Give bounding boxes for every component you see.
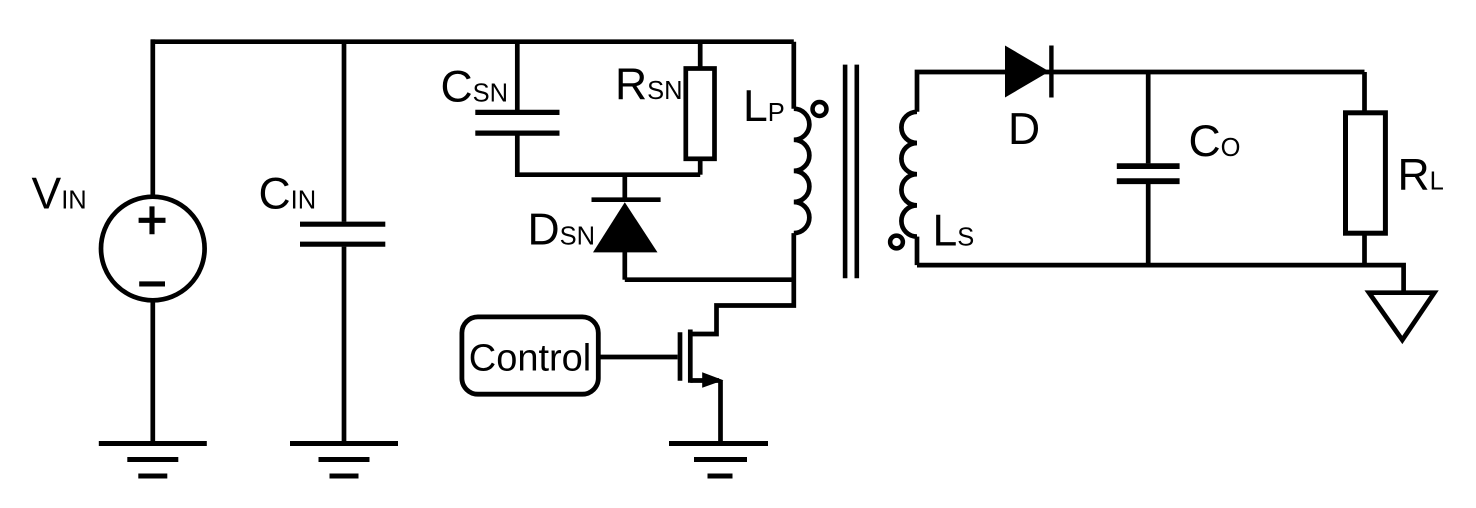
wire top bus from VIN to LP (151, 39, 794, 44)
wire CO top lead (1146, 72, 1151, 163)
inductor LS coil (901, 112, 917, 237)
ground G1 under VIN (99, 444, 207, 477)
resistor RSN body (686, 69, 715, 159)
svg-text:Control: Control (469, 337, 592, 379)
control block box (462, 317, 598, 394)
MOSFET Q1 gate bar (678, 332, 683, 380)
capacitor CO plates (1117, 166, 1180, 181)
wire DSN to LP bottom (625, 277, 794, 282)
VIN minus sign (139, 281, 165, 286)
diode D cathode bar (1049, 46, 1053, 98)
wire RL bottom lead (1362, 233, 1367, 265)
transformer phasing dot secondary (890, 236, 903, 249)
svg-text:DSN: DSN (528, 206, 596, 255)
svg-text:RL: RL (1398, 150, 1444, 199)
diode DSN cathode bar (592, 197, 661, 202)
diode DSN triangle (593, 202, 658, 252)
ground G3 under MOSFET (669, 444, 768, 477)
MOSFET Q1 source arrow (702, 372, 723, 388)
wire CSN bottom to RSN bottom (517, 135, 700, 174)
capacitor CIN plates (300, 224, 385, 244)
wire CO bottom lead (1146, 184, 1151, 265)
wire LS top and secondary top bus (917, 72, 1365, 112)
svg-text:LP: LP (743, 82, 785, 131)
wire MOSFET source to ground (718, 381, 723, 444)
wire RL top lead (1362, 72, 1367, 113)
resistor RL body (1346, 113, 1386, 233)
wire CIN top lead (342, 42, 347, 222)
wire VIN bottom lead (150, 301, 155, 443)
svg-text:LS: LS (933, 207, 975, 256)
wire secondary bottom bus (917, 265, 1404, 293)
wire DSN cathode stub (622, 175, 627, 200)
wire DSN anode stub (622, 252, 627, 280)
VIN plus sign (139, 206, 166, 234)
ground G2 under CIN (290, 444, 398, 477)
svg-text:CSN: CSN (441, 62, 509, 111)
svg-text:D: D (1008, 105, 1040, 154)
wire gate from Control to MOSFET (598, 355, 677, 360)
wire LS bottom lead (915, 237, 920, 266)
wire VIN top lead (150, 39, 155, 197)
wire CIN bottom lead (342, 247, 347, 443)
wire RSN top lead (698, 42, 703, 69)
transformer phasing dot primary (813, 102, 827, 116)
svg-text:VIN: VIN (32, 170, 87, 219)
capacitor CSN plates (475, 112, 559, 133)
svg-text:CIN: CIN (259, 170, 317, 219)
diode D triangle (1005, 46, 1049, 98)
wire LP top lead (791, 42, 796, 109)
svg-text:RSN: RSN (615, 60, 683, 109)
ground triangle output (1369, 293, 1434, 340)
source VIN circle (101, 197, 205, 301)
MOSFET Q1 source lead (690, 378, 719, 383)
MOSFET Q1 channel bar (688, 330, 693, 383)
inductor LP coil (794, 109, 810, 233)
transformer core lines (845, 65, 857, 279)
wire RSN bottom lead (698, 159, 703, 175)
svg-text:CO: CO (1189, 117, 1241, 166)
wire CSN top lead (515, 42, 520, 110)
wire LP bottom to MOSFET drain (693, 233, 794, 334)
